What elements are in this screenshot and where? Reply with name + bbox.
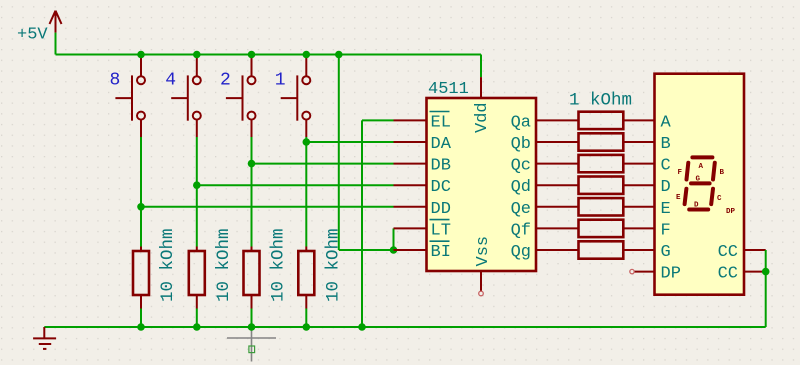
svg-text:Qd: Qd xyxy=(511,178,531,197)
pin Vss xyxy=(480,271,482,291)
pin 1 R4 xyxy=(305,247,307,252)
pin 2 SW3 xyxy=(251,120,253,137)
junction SW2 top rail xyxy=(193,51,201,59)
body R3 xyxy=(244,251,260,295)
pin R8 to display D xyxy=(623,184,654,186)
body R2 xyxy=(189,251,205,295)
pin BI xyxy=(394,249,427,251)
pin Qc xyxy=(536,163,579,165)
display DS1 7-segment common cathode xyxy=(630,74,766,295)
cursor anchor square xyxy=(249,346,255,353)
resistor R8 body xyxy=(579,177,624,194)
segment C xyxy=(711,189,713,204)
svg-text:E: E xyxy=(676,194,681,202)
svg-text:10 kOhm: 10 kOhm xyxy=(158,228,178,302)
svg-text:Qb: Qb xyxy=(511,135,531,154)
pin EL xyxy=(394,119,427,121)
wire CC to ground rail xyxy=(765,250,767,327)
pin R10 to display F xyxy=(623,227,654,229)
pin R5 to display A xyxy=(623,119,654,121)
editor cursor crosshair xyxy=(227,315,276,362)
segment D xyxy=(689,208,708,212)
wire SW3 column to R3 xyxy=(252,137,394,247)
wire SW4 column to R4 xyxy=(306,137,393,247)
contact circle top SW2 xyxy=(193,76,201,84)
pin DP xyxy=(634,271,655,273)
svg-text:LT: LT xyxy=(431,221,451,240)
body R1 xyxy=(133,251,149,295)
junction SW3 top rail xyxy=(248,51,256,59)
resistor R6 body xyxy=(579,133,624,150)
segment E xyxy=(685,189,687,204)
pin 2 R1 xyxy=(140,295,142,309)
pin Qa xyxy=(536,119,579,121)
wire Vdd drop xyxy=(480,55,482,78)
resistor R11 body xyxy=(579,241,624,258)
unconnected marker Vss xyxy=(479,291,484,296)
svg-text:C: C xyxy=(717,195,722,203)
svg-text:10 kOhm: 10 kOhm xyxy=(269,228,289,302)
pin 2 R4 xyxy=(305,295,307,309)
contact circle top SW1 xyxy=(137,76,145,84)
svg-text:DA: DA xyxy=(431,135,452,154)
IC U1 4511 BCD to 7-segment decoder xyxy=(394,77,579,296)
segment A xyxy=(692,155,712,159)
segment B xyxy=(713,163,715,180)
wire R1 to ground rail xyxy=(140,309,142,328)
actuator stem SW4 xyxy=(281,97,298,99)
resistor R4 10 kOhm xyxy=(298,228,343,327)
wire DB row xyxy=(252,163,394,165)
pin 1 SW4 xyxy=(305,55,307,77)
resistor R3 10 kOhm xyxy=(244,228,289,327)
pin 2 SW1 xyxy=(140,120,142,137)
contact circle bottom SW1 xyxy=(137,112,145,120)
svg-text:F: F xyxy=(661,221,671,240)
pin Qe xyxy=(536,206,579,208)
pin DA xyxy=(394,141,427,143)
pin 1 SW1 xyxy=(140,55,142,77)
resistor R7 body xyxy=(579,155,624,172)
pin 2 SW2 xyxy=(196,120,198,137)
junction SW4 DA row xyxy=(303,138,311,146)
actuator stem SW2 xyxy=(171,97,188,99)
junction BI riser top rail xyxy=(335,51,343,59)
contact circle top SW4 xyxy=(302,76,310,84)
actuator bar SW4 xyxy=(296,75,298,120)
wire EL to ground xyxy=(362,120,394,327)
pin Vdd xyxy=(480,77,482,98)
contact circle bottom SW2 xyxy=(193,112,201,120)
svg-text:G: G xyxy=(696,176,701,184)
svg-text:DB: DB xyxy=(431,157,451,176)
svg-text:1 kOhm: 1 kOhm xyxy=(569,91,632,111)
segment F xyxy=(687,163,689,180)
pin R7 to display C xyxy=(623,163,654,165)
wire DD row xyxy=(141,206,394,208)
pin Qg xyxy=(536,249,579,251)
junction EL ground rail xyxy=(358,323,366,331)
pin Qb xyxy=(536,141,579,143)
pin CC top xyxy=(744,249,766,251)
wire R4 to ground rail xyxy=(305,309,307,328)
svg-text:8: 8 xyxy=(110,71,121,91)
contact circle top SW3 xyxy=(248,76,256,84)
resistor R10 body xyxy=(579,220,624,237)
svg-text:Vdd: Vdd xyxy=(473,102,492,133)
pin 1 R1 xyxy=(140,247,142,252)
junction R2 ground rail xyxy=(193,323,201,331)
svg-text:C: C xyxy=(661,157,671,176)
wire ground rail xyxy=(44,326,765,328)
junction SW2 DC row xyxy=(193,181,201,189)
resistor R5 body xyxy=(579,112,624,129)
pin DC xyxy=(394,184,427,186)
svg-text:F: F xyxy=(678,169,683,177)
wire +5V to BI xyxy=(339,55,394,251)
svg-text:CC: CC xyxy=(718,265,738,284)
switch SW4 (weight 1) xyxy=(275,55,311,138)
pin 2 R3 xyxy=(251,295,253,309)
svg-text:A: A xyxy=(699,163,704,171)
segment G xyxy=(691,181,710,185)
power symbol +5V (arrow) xyxy=(50,11,62,33)
pin R9 to display E xyxy=(623,206,654,208)
svg-text:DC: DC xyxy=(431,178,451,197)
pin R11 to display G xyxy=(623,249,654,251)
svg-text:2: 2 xyxy=(220,71,231,91)
wire SW1 column to R1 xyxy=(141,137,394,247)
svg-text:B: B xyxy=(720,169,725,177)
junction R3 ground rail xyxy=(248,323,256,331)
svg-text:BI: BI xyxy=(431,243,451,262)
svg-text:CC: CC xyxy=(718,243,738,262)
junction R4 ground rail xyxy=(303,323,311,331)
junction CC xyxy=(762,268,770,276)
svg-text:Qf: Qf xyxy=(511,221,531,240)
actuator bar SW1 xyxy=(131,75,133,120)
actuator bar SW3 xyxy=(242,75,244,120)
svg-text:G: G xyxy=(661,243,671,262)
svg-text:10 kOhm: 10 kOhm xyxy=(214,228,234,302)
wire R2 to ground rail xyxy=(196,309,198,328)
pin DD xyxy=(394,206,427,208)
svg-text:E: E xyxy=(661,200,671,219)
body U1 xyxy=(427,98,537,271)
svg-text:D: D xyxy=(661,178,671,197)
svg-text:Qe: Qe xyxy=(511,200,531,219)
wire DC row xyxy=(197,184,394,186)
pin 1 R2 xyxy=(196,247,198,252)
svg-text:A: A xyxy=(661,113,672,132)
body DS1 xyxy=(655,74,745,295)
wire LT tap xyxy=(393,228,395,250)
resistor R9 body xyxy=(579,198,624,215)
svg-text:DD: DD xyxy=(431,200,451,219)
switch SW1 (weight 8) xyxy=(110,55,146,138)
pin 1 R3 xyxy=(251,247,253,252)
pin 2 R2 xyxy=(196,295,198,309)
junction R1 ground rail xyxy=(137,323,145,331)
contact circle bottom SW4 xyxy=(302,112,310,120)
pin 2 SW4 xyxy=(305,120,307,137)
switch SW3 (weight 2) xyxy=(220,55,256,138)
wire DA row xyxy=(306,141,393,143)
actuator stem SW3 xyxy=(226,97,243,99)
svg-text:10 kOhm: 10 kOhm xyxy=(323,228,343,302)
pin Qd xyxy=(536,184,579,186)
junction SW1 top rail xyxy=(137,51,145,59)
svg-text:DP: DP xyxy=(726,208,736,216)
wire +5V stem xyxy=(55,33,57,55)
wire SW2 column to R2 xyxy=(197,137,394,247)
body R4 xyxy=(298,251,314,295)
junction SW1 DD row xyxy=(137,203,145,211)
svg-text:4: 4 xyxy=(165,71,176,91)
unconnected marker DP xyxy=(630,269,634,273)
pin R6 to display B xyxy=(623,141,654,143)
svg-text:D: D xyxy=(694,202,699,210)
svg-text:Qc: Qc xyxy=(511,157,531,176)
svg-text:Qg: Qg xyxy=(511,243,531,262)
pin 1 SW2 xyxy=(196,55,198,77)
wire R3 to ground rail xyxy=(251,309,253,328)
actuator stem SW1 xyxy=(115,97,132,99)
svg-text:Vss: Vss xyxy=(474,236,493,267)
pin DB xyxy=(394,163,427,165)
resistor R1 10 kOhm xyxy=(133,228,178,327)
svg-text:EL: EL xyxy=(431,113,451,132)
junction SW3 DB row xyxy=(248,160,256,168)
svg-text:B: B xyxy=(661,135,671,154)
pin LT xyxy=(394,227,427,229)
actuator bar SW2 xyxy=(187,75,189,120)
pin Qf xyxy=(536,227,579,229)
svg-text:DP: DP xyxy=(661,265,681,284)
svg-text:+5V: +5V xyxy=(17,26,48,45)
wire +5V top rail xyxy=(56,54,482,56)
svg-text:4511: 4511 xyxy=(428,80,469,99)
switch SW2 (weight 4) xyxy=(165,55,201,138)
svg-text:1: 1 xyxy=(275,71,286,91)
ground symbol xyxy=(33,327,56,349)
resistor R2 10 kOhm xyxy=(189,228,234,327)
junction SW4 top rail xyxy=(303,51,311,59)
contact circle bottom SW3 xyxy=(248,112,256,120)
pin 1 SW3 xyxy=(251,55,253,77)
pin CC bottom xyxy=(744,271,766,273)
junction LT-BI xyxy=(390,246,398,254)
svg-text:Qa: Qa xyxy=(511,113,531,132)
